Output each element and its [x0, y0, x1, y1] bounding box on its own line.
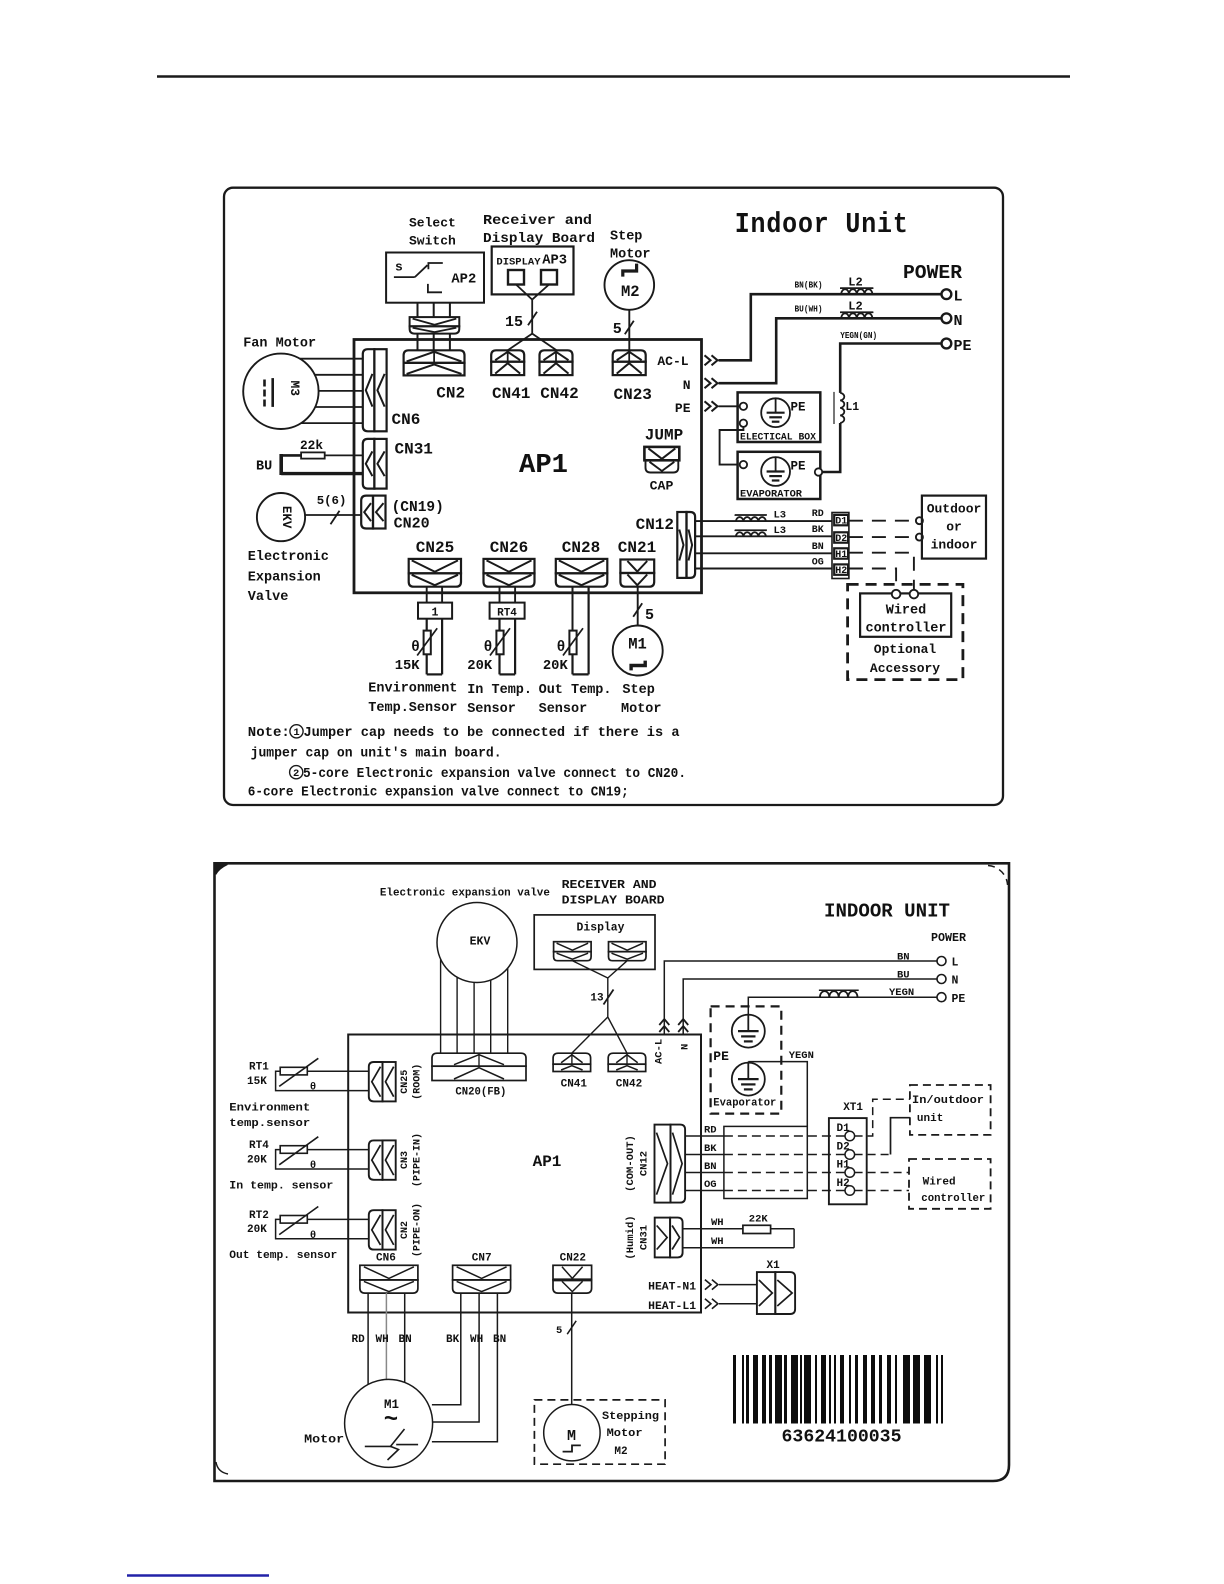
svg-text:CN22: CN22 [560, 1253, 586, 1265]
svg-text:20K: 20K [543, 659, 569, 674]
svg-text:BN: BN [704, 1161, 717, 1173]
connector CN26 [484, 559, 535, 587]
wire PE yegn d2 [748, 997, 937, 1015]
expansion valve EKV circle [257, 493, 305, 541]
svg-text:D2: D2 [835, 534, 847, 545]
svg-text:BU: BU [897, 970, 910, 982]
connector CN7 label d2 [472, 1253, 492, 1265]
svg-text:BU: BU [256, 460, 272, 475]
stepping motor text [602, 1411, 659, 1458]
choke on PE d2 [819, 990, 859, 997]
terminal L [942, 289, 963, 306]
svg-text:WH: WH [470, 1334, 483, 1346]
receiver and display board text [483, 214, 595, 247]
net AC-L label d2 [654, 1039, 666, 1064]
connector CN3 rotated labels [400, 1133, 424, 1187]
optional accessory text [870, 642, 940, 676]
svg-text:BK: BK [704, 1143, 717, 1155]
net AC-L label [657, 354, 688, 369]
svg-text:In temp. sensor: In temp. sensor [229, 1181, 333, 1193]
stepping motor M2 circle [544, 1405, 600, 1461]
wire WH loop d2 [683, 1229, 795, 1248]
svg-text:15K: 15K [247, 1076, 267, 1088]
terminal D1 [834, 515, 848, 528]
expansion valve EKV label d2 [470, 936, 491, 949]
wire RD d2 [685, 1135, 845, 1137]
svg-text:ELECTICAL BOX: ELECTICAL BOX [740, 431, 816, 442]
svg-text:JUMP: JUMP [645, 427, 683, 445]
svg-text:(ROOM): (ROOM) [412, 1064, 424, 1100]
choke L2 on L [840, 288, 873, 294]
thermistor RT2 theta [557, 640, 566, 656]
svg-text:M2: M2 [621, 283, 640, 301]
svg-text:BN: BN [812, 542, 824, 553]
PE dashed box d2 [711, 1006, 782, 1113]
svg-text:jumper cap on unit's main boar: jumper cap on unit's main board. [251, 746, 502, 762]
step motor M1 label [628, 636, 647, 654]
svg-text:L: L [954, 289, 963, 306]
svg-text:θ: θ [484, 640, 493, 656]
connector CN20 [361, 496, 385, 529]
out temp sensor text [539, 683, 612, 717]
svg-text:M3: M3 [287, 380, 302, 396]
connector CN31 d2 [655, 1218, 683, 1258]
connector CN2 label [436, 385, 465, 403]
svg-text:5(6): 5(6) [317, 494, 347, 508]
svg-text:AP1: AP1 [519, 451, 568, 481]
thermistor RT2 value 20K [543, 659, 569, 674]
main board AP1 outline [354, 340, 702, 593]
connector CN31 [363, 439, 387, 489]
svg-text:RD: RD [812, 509, 824, 520]
wire label BU d2 [897, 970, 910, 982]
wire label WH 1 [711, 1217, 724, 1229]
wire HEAT-L1 [719, 1303, 757, 1305]
environment temp sensor text [368, 682, 457, 717]
svg-text:temp.sensor: temp.sensor [229, 1118, 310, 1130]
wire CN12 pin4 OG [695, 568, 833, 570]
terminal strip XT1 label [843, 1102, 863, 1114]
switch AP2 lever [394, 265, 428, 277]
electrical box caption [740, 431, 816, 442]
connector CN28 label [562, 539, 600, 557]
arrow N up [678, 1019, 688, 1032]
connector CN42 label d2 [616, 1079, 642, 1091]
wire M2 to CN23 [628, 310, 630, 351]
svg-text:PE: PE [675, 401, 691, 416]
terminal N d2 [937, 975, 959, 988]
svg-text:BK: BK [812, 525, 824, 536]
svg-text:CN41: CN41 [492, 385, 530, 403]
terminal evaporator left [740, 461, 747, 468]
connector CN6 label [392, 411, 421, 429]
connector CN25 [409, 559, 461, 587]
arrow AC-L up [659, 1019, 669, 1032]
svg-text:Electronic expansion valve: Electronic expansion valve [380, 887, 550, 899]
ground PE electrical box [761, 398, 790, 427]
switch AP2 label s [395, 260, 403, 275]
expansion valve EKV circle d2 [437, 903, 517, 983]
svg-text:PE: PE [791, 460, 806, 474]
svg-text:CN25: CN25 [416, 539, 454, 557]
note line 2 [251, 746, 502, 762]
wire count 5(6) tick [317, 494, 347, 524]
fan motor text [243, 337, 316, 352]
svg-text:Environment: Environment [368, 682, 457, 697]
stepping motor dashed box [534, 1400, 665, 1464]
thermistor RT4 body [490, 628, 510, 655]
svg-text:Motor: Motor [607, 1428, 643, 1440]
svg-text:OG: OG [812, 558, 824, 569]
electrical box outline [738, 392, 821, 442]
plug of AP2 cable [410, 317, 460, 334]
wire D1 to in-outdoor [855, 1099, 910, 1136]
switch AP2 designator [451, 272, 476, 287]
svg-text:RT1: RT1 [249, 1062, 269, 1074]
wire label OG [812, 558, 824, 569]
svg-text:CN6: CN6 [376, 1253, 396, 1265]
cable shield box d2 [724, 1126, 807, 1198]
svg-text:CN7: CN7 [472, 1253, 492, 1265]
ground PE evaporator [761, 457, 790, 486]
svg-text:PE: PE [954, 338, 972, 355]
svg-text:EKV: EKV [279, 506, 293, 529]
note line 4 [248, 785, 629, 801]
svg-text:20K: 20K [467, 659, 493, 674]
svg-text:Indoor Unit: Indoor Unit [735, 208, 909, 241]
svg-text:1: 1 [293, 727, 299, 739]
svg-text:AP2: AP2 [451, 272, 476, 287]
svg-text:CN12: CN12 [636, 516, 674, 534]
display board DISPLAY label [496, 257, 541, 269]
svg-text:Jumper cap needs to be connect: Jumper cap needs to be connected if ther… [304, 725, 681, 741]
main board AP1 label d2 [533, 1153, 562, 1171]
connector CN42 [540, 350, 573, 375]
evaporator caption [740, 488, 803, 500]
jumper cap component [644, 447, 679, 473]
out temp sensor text d2 [229, 1250, 337, 1262]
note line 1 [248, 725, 680, 741]
display board plug 1 [508, 270, 524, 285]
outdoor or indoor box [922, 496, 986, 559]
resistor 22k body [301, 452, 325, 458]
svg-text:20K: 20K [247, 1224, 267, 1236]
svg-text:θ: θ [310, 1230, 316, 1242]
svg-text:RT4: RT4 [497, 608, 517, 620]
terminal H1 d2 [837, 1160, 855, 1178]
PE label d2 [713, 1049, 729, 1064]
outdoor or indoor text [927, 502, 982, 553]
terminal D2 d2 [837, 1142, 855, 1160]
switch AP2 box [386, 253, 484, 303]
thermistor RT4 value 20K [467, 659, 493, 674]
connector CN21 [620, 560, 654, 587]
stepping motor M2 label [567, 1428, 576, 1445]
node wired controller circle 2 [910, 590, 919, 599]
wires AP2 to plug [418, 303, 450, 317]
wire CN12 pin3 BN [695, 552, 833, 554]
svg-text:YEGN(GN): YEGN(GN) [840, 331, 877, 341]
expansion valve EKV label [279, 506, 293, 529]
wire BN d2 [685, 1172, 845, 1174]
wire label WH 2 [711, 1236, 724, 1248]
svg-text:N: N [683, 378, 691, 393]
svg-text:1: 1 [432, 607, 439, 620]
connector CN25 rotated labels [400, 1064, 424, 1100]
svg-text:EKV: EKV [470, 936, 491, 949]
wire label BU(WH) [795, 305, 823, 315]
svg-text:CN31: CN31 [639, 1225, 651, 1250]
svg-text:RECEIVER AND: RECEIVER AND [562, 878, 657, 892]
step motor M2 circle [605, 260, 655, 310]
barcode number [782, 1428, 902, 1448]
main board AP1 label [519, 451, 568, 481]
svg-text:Step: Step [610, 230, 642, 245]
svg-text:INDOOR UNIT: INDOOR UNIT [824, 901, 950, 923]
diagram 1 title Indoor Unit [735, 208, 909, 241]
svg-text:6-core Electronic expansion va: 6-core Electronic expansion valve connec… [248, 785, 629, 801]
arrow HEAT-L1 [705, 1299, 718, 1309]
connector CN41 label [492, 385, 530, 403]
svg-text:CN26: CN26 [490, 539, 528, 557]
wires EKV to CN20FB [441, 959, 508, 1053]
svg-text:(PIPE-ON): (PIPE-ON) [412, 1203, 424, 1257]
wires CN25 to probe [427, 587, 442, 603]
svg-text:DISPLAY: DISPLAY [496, 257, 541, 269]
fan motor M3 circle [243, 354, 318, 429]
svg-text:CN28: CN28 [562, 539, 600, 557]
note line 3 [290, 766, 686, 782]
svg-text:Display Board: Display Board [483, 232, 595, 247]
svg-text:CN21: CN21 [618, 539, 656, 557]
arrow N [705, 378, 718, 388]
wire D2 to outdoor [849, 536, 916, 538]
svg-text:Valve: Valve [248, 590, 289, 605]
svg-text:WH: WH [711, 1236, 724, 1248]
connector CN21 label [618, 539, 656, 557]
svg-text:DISPLAY BOARD: DISPLAY BOARD [562, 894, 665, 908]
choke L3 on BK [735, 525, 787, 537]
step motor M2 glyph [623, 264, 637, 277]
svg-text:M2: M2 [614, 1446, 627, 1458]
blue footer link line [127, 1574, 269, 1576]
connector CN41 [491, 350, 524, 375]
wire HEAT-N1 [719, 1284, 757, 1286]
connector CN2 [404, 350, 465, 375]
POWER label d2 [931, 932, 966, 945]
wire display board bus [508, 285, 557, 351]
svg-text:Out Temp.: Out Temp. [539, 683, 612, 698]
terminal electrical box lower [740, 420, 747, 427]
in-outdoor unit dashed box [910, 1085, 991, 1135]
wire BK d2 [685, 1154, 845, 1156]
svg-text:controller: controller [865, 622, 946, 637]
wire N riser [683, 979, 937, 1035]
connector CN41 d2 [553, 1053, 591, 1071]
svg-text:BK: BK [446, 1334, 460, 1346]
fan motor M1 circle d2 [345, 1379, 433, 1467]
thermistor RT1 body [417, 628, 437, 655]
display board AP3 designator [542, 254, 567, 269]
svg-text:CN25: CN25 [400, 1070, 411, 1094]
display board box d2 [534, 915, 655, 970]
wires M3 to CN6 [300, 359, 363, 423]
terminal H2 d2 [837, 1178, 855, 1195]
net N label [683, 378, 691, 393]
thermistor RT1 theta [411, 640, 420, 656]
svg-text:CN31: CN31 [395, 441, 433, 459]
svg-text:22k: 22k [300, 438, 323, 453]
svg-text:Display: Display [577, 921, 625, 934]
svg-text:Receiver and: Receiver and [483, 214, 592, 229]
svg-text:5: 5 [613, 321, 622, 338]
svg-text:Note:: Note: [248, 725, 290, 741]
svg-text:(Humid): (Humid) [625, 1215, 637, 1259]
svg-text:Select: Select [409, 216, 456, 231]
fan motor M3 label [287, 380, 302, 396]
arrow HEAT-N1 [705, 1280, 718, 1290]
wire CN12 pin2 BK [695, 535, 833, 537]
svg-text:~: ~ [384, 1407, 398, 1434]
svg-text:L3: L3 [774, 510, 787, 522]
diagram 1 outer border [224, 188, 1003, 805]
wire labels RD WH BN [352, 1334, 412, 1346]
terminal strip outline [832, 513, 849, 579]
connector CN20(FB) [432, 1053, 526, 1080]
svg-text:In/outdoor: In/outdoor [912, 1095, 984, 1107]
svg-text:Environment: Environment [229, 1103, 310, 1115]
svg-text:(COM-OUT): (COM-OUT) [625, 1135, 637, 1192]
svg-text:M1: M1 [628, 636, 647, 654]
svg-text:15: 15 [505, 314, 523, 331]
connector CN2 d2 [369, 1210, 396, 1249]
select switch text [409, 216, 456, 249]
connector CN6 d2 [360, 1265, 418, 1293]
svg-text:X1: X1 [767, 1260, 781, 1272]
resistor 22k value [300, 438, 323, 453]
step motor M1 text [621, 683, 662, 717]
svg-text:L3: L3 [774, 525, 787, 537]
YEGN label mid d2 [789, 1050, 814, 1062]
connector CN12 label [636, 516, 674, 534]
terminal D1 d2 [837, 1123, 855, 1141]
svg-text:N: N [680, 1044, 692, 1050]
svg-text:PE: PE [713, 1049, 729, 1064]
svg-text:L1: L1 [845, 401, 859, 414]
resistor 22K d2 [743, 1214, 771, 1234]
svg-text:CN2: CN2 [400, 1221, 411, 1239]
connector X1 [757, 1272, 795, 1314]
connector CN6 [363, 349, 387, 431]
svg-text:or: or [946, 520, 962, 535]
wire EKV to CN20 [305, 514, 361, 516]
sensor tag RT4 box [490, 603, 525, 620]
wire CN12 pin1 RD [695, 520, 833, 522]
svg-text:θ: θ [411, 640, 420, 656]
horizontal rule top of page [157, 75, 1070, 78]
net HEAT-N1 label [648, 1282, 696, 1294]
svg-text:CN3: CN3 [400, 1151, 411, 1169]
svg-text:PE: PE [952, 993, 966, 1006]
svg-text:CN20(FB): CN20(FB) [455, 1087, 506, 1099]
display board plug 2 [541, 270, 557, 285]
wire sensor RT4 down [500, 619, 516, 675]
svg-text:HEAT-L1: HEAT-L1 [648, 1301, 696, 1313]
switch AP2 lower contact [428, 284, 442, 292]
wired controller text d2 [921, 1177, 985, 1206]
svg-text:Expansion: Expansion [248, 571, 321, 586]
connector CN12 rotated labels [625, 1135, 651, 1192]
svg-text:controller: controller [921, 1193, 985, 1205]
step motor M1 circle [613, 626, 663, 676]
thermistor RT1 d2 [247, 1058, 369, 1093]
svg-text:(PIPE-IN): (PIPE-IN) [412, 1133, 424, 1187]
wire display bus d2 [572, 961, 628, 1053]
connector CN22 label d2 [560, 1253, 586, 1265]
terminal evaporator right [815, 468, 822, 475]
connector CN25 label [416, 539, 454, 557]
step motor M2 label [621, 283, 640, 301]
terminal PE [942, 338, 972, 355]
connector CN31 label [395, 441, 433, 459]
wire H2 to wired d2 [855, 1190, 909, 1192]
svg-text:Sensor: Sensor [539, 702, 588, 717]
connector CN31 rotated labels [625, 1215, 651, 1259]
svg-text:5-core Electronic expansion va: 5-core Electronic expansion valve connec… [303, 766, 686, 782]
connector CN22 d2 [553, 1265, 592, 1293]
motor caption d2 [304, 1434, 344, 1447]
svg-text:CAP: CAP [650, 479, 674, 494]
in-outdoor unit text [912, 1095, 984, 1125]
barcode 63624100035 [733, 1355, 943, 1424]
choke L2 label 2 [840, 300, 873, 314]
connector CN20(FB) label [455, 1087, 506, 1099]
switch AP2 upper contact [428, 263, 442, 269]
wire labels BK WH BN [446, 1334, 506, 1346]
svg-text:BN(BK): BN(BK) [795, 281, 823, 291]
wired controller text [865, 604, 946, 637]
thermistor RT4 d2 [247, 1137, 369, 1172]
wire label YEGN d2 [889, 987, 914, 999]
svg-text:63624100035: 63624100035 [782, 1428, 902, 1448]
wires CN6 to motor [368, 1293, 405, 1384]
wires plug to CN2 [418, 334, 450, 351]
svg-text:13: 13 [590, 993, 604, 1005]
svg-text:HEAT-N1: HEAT-N1 [648, 1282, 696, 1294]
terminal N [942, 313, 963, 330]
wire label BN d2b [704, 1161, 717, 1173]
diagram 2 outer border [215, 863, 1010, 1481]
wire CN21 to M1 [637, 587, 639, 626]
svg-text:H1: H1 [835, 550, 847, 561]
svg-text:N: N [954, 313, 963, 330]
connector CN41 label d2 [561, 1079, 588, 1091]
arrow PE [705, 401, 718, 411]
wire ground link d2 [748, 1062, 807, 1127]
wired controller dashed box d2 [909, 1159, 991, 1209]
connector CN12 [677, 512, 695, 578]
svg-text:OG: OG [704, 1179, 717, 1191]
svg-text:XT1: XT1 [843, 1102, 863, 1114]
svg-text:Fan Motor: Fan Motor [243, 337, 316, 352]
svg-text:θ: θ [557, 640, 566, 656]
svg-text:Motor: Motor [304, 1434, 344, 1447]
wire OG d2 [685, 1190, 845, 1192]
connector CN6 label d2 [376, 1253, 396, 1265]
electronic expansion valve text d2 [380, 887, 550, 899]
svg-text:Switch: Switch [409, 234, 456, 249]
wires CN7 to motor [432, 1293, 498, 1442]
